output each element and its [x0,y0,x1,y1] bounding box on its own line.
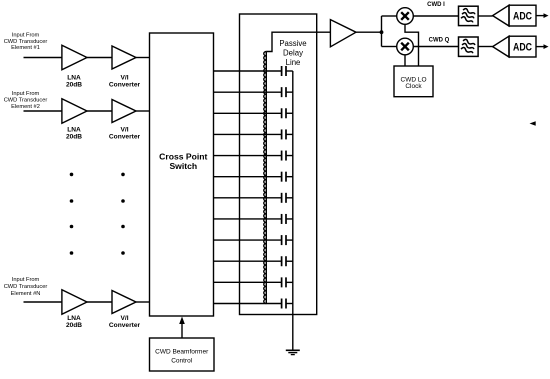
block: Passive Delay Line box [240,14,317,315]
wire input 2 to LNA [24,110,63,112]
wire delay line output (top tap to buffer) [266,32,330,51]
wire input 3 to LNA [24,301,63,303]
capacitor C4 [281,129,283,139]
svg-text:V/I: V/I [120,127,128,134]
wire crosspoint tap 6 [214,176,282,178]
capacitor C3 [281,108,283,118]
svg-text:LNA: LNA [67,74,81,81]
svg-text:LNA: LNA [67,127,81,134]
svg-text:Clock: Clock [405,83,422,90]
wire V/I to cross point switch (row #2) [136,110,150,112]
wire cap 6 to ground bus [286,176,293,178]
svg-text:LNA: LNA [67,315,81,322]
filter FL2 (low-pass, CWD Q) [459,37,479,56]
svg-text:Switch: Switch [169,161,197,171]
svg-text:Converter: Converter [109,322,141,329]
ADC U3 (CWD Q channel) [493,36,509,57]
wire mixer I LO feed [405,24,419,66]
svg-text:20dB: 20dB [66,134,82,141]
wire mixer I to filter I [413,15,458,17]
svg-text:V/I: V/I [120,74,128,81]
wire mixer Q LO feed [404,55,406,66]
wire crosspoint tap 1 [214,70,282,72]
svg-text:Element #2: Element #2 [11,104,40,110]
capacitor C2 [281,87,283,97]
wire mixer Q to filter Q [413,46,458,48]
capacitor C7 [281,193,283,203]
svg-text:Element #N: Element #N [11,291,41,297]
svg-text:CWD Transducer: CWD Transducer [4,284,48,290]
block U1: Cross Point Switch [150,33,214,316]
svg-text:Line: Line [286,58,301,67]
svg-text:Input From: Input From [12,277,40,283]
svg-text:V/I: V/I [120,315,128,322]
buffer amplifier A1 [330,20,356,47]
wire cap 12 to ground bus [286,303,293,305]
wire cap 5 to ground bus [286,155,293,157]
amplifier LNA (row #N) [62,290,87,315]
wire crosspoint tap 10 [214,260,282,262]
svg-text:Converter: Converter [109,81,141,88]
block: CWD LO Clock [394,66,433,97]
wire cap 11 to ground bus [286,281,293,283]
svg-text:Control: Control [171,357,193,364]
capacitor C5 [281,151,283,161]
capacitor C1 [281,66,283,76]
svg-text:Passive: Passive [279,39,306,48]
wire cap 7 to ground bus [286,197,293,199]
svg-text:Delay: Delay [283,49,303,58]
wire cap 3 to ground bus [286,112,293,114]
wire cap 2 to ground bus [286,91,293,93]
amplifier LNA (row #2) [62,99,87,124]
wire crosspoint tap 3 [214,112,282,114]
wire crosspoint tap 11 [214,281,282,283]
inductor delay line L1 (scalloped vertical line) [265,52,267,304]
wire ground bus [292,71,294,350]
block: CWD Beamformer Control [150,338,215,371]
svg-text:Converter: Converter [109,134,141,141]
ADC U2 (CWD I channel) [493,5,509,26]
wire cap 9 to ground bus [286,239,293,241]
ellipsis dots (more channels) [70,173,125,255]
capacitor C8 [281,214,283,224]
capacitor C10 [281,256,283,266]
wire cap 10 to ground bus [286,260,293,262]
wire LNA to V/I converter (row #1) [87,57,112,59]
wire crosspoint tap 7 [214,197,282,199]
svg-text:ADC: ADC [513,11,532,23]
svg-text:CWD I: CWD I [427,2,445,8]
stray cursor arrowhead mark [530,121,536,126]
wire junction to mixers [381,16,383,47]
svg-text:20dB: 20dB [66,322,82,329]
wire input 1 to LNA [24,57,63,59]
wire crosspoint tap 4 [214,133,282,135]
svg-text:CWD Transducer: CWD Transducer [4,98,48,104]
wire cap 1 to ground bus [286,70,293,72]
wire filter Q to ADC Q [478,46,493,48]
wire crosspoint tap 2 [214,91,282,93]
mixer MI [397,8,414,25]
filter FL1 (low-pass, CWD I) [459,6,479,25]
capacitor C6 [281,172,283,182]
wire crosspoint tap 8 [214,218,282,220]
wire crosspoint tap 5 [214,155,282,157]
svg-text:20dB: 20dB [66,81,82,88]
ground symbol [286,349,300,351]
wire LNA to V/I converter (row #N) [87,301,112,303]
svg-text:ADC: ADC [513,42,532,54]
wire crosspoint tap 12 [214,303,282,305]
svg-text:CWD Beamformer: CWD Beamformer [155,348,209,355]
capacitor C12 [281,299,283,309]
svg-text:Input From: Input From [12,91,40,97]
svg-text:Cross Point: Cross Point [159,151,207,161]
amplifier V/I Converter (row #N) [112,291,136,314]
amplifier V/I Converter (row #2) [112,100,136,123]
svg-text:Input From: Input From [12,33,40,39]
capacitor C11 [281,277,283,287]
wire crosspoint tap 9 [214,239,282,241]
wire cap 4 to ground bus [286,133,293,135]
wire control to crosspoint (arrow up) [181,322,183,338]
wire buffer to junction [356,31,382,33]
wire LNA to V/I converter (row #2) [87,110,112,112]
svg-text:CWD Transducer: CWD Transducer [4,39,48,45]
wire V/I to cross point switch (row #N) [136,301,150,303]
svg-text:Element #1: Element #1 [11,45,40,51]
amplifier V/I Converter (row #1) [112,46,136,69]
capacitor C9 [281,235,283,245]
wire V/I to cross point switch (row #1) [136,57,150,59]
amplifier LNA (row #1) [62,45,87,70]
wire filter I to ADC I [478,15,493,17]
wire cap 8 to ground bus [286,218,293,220]
svg-text:CWD Q: CWD Q [429,38,450,44]
node J1 junction dot [380,30,384,34]
mixer MQ [397,38,414,55]
